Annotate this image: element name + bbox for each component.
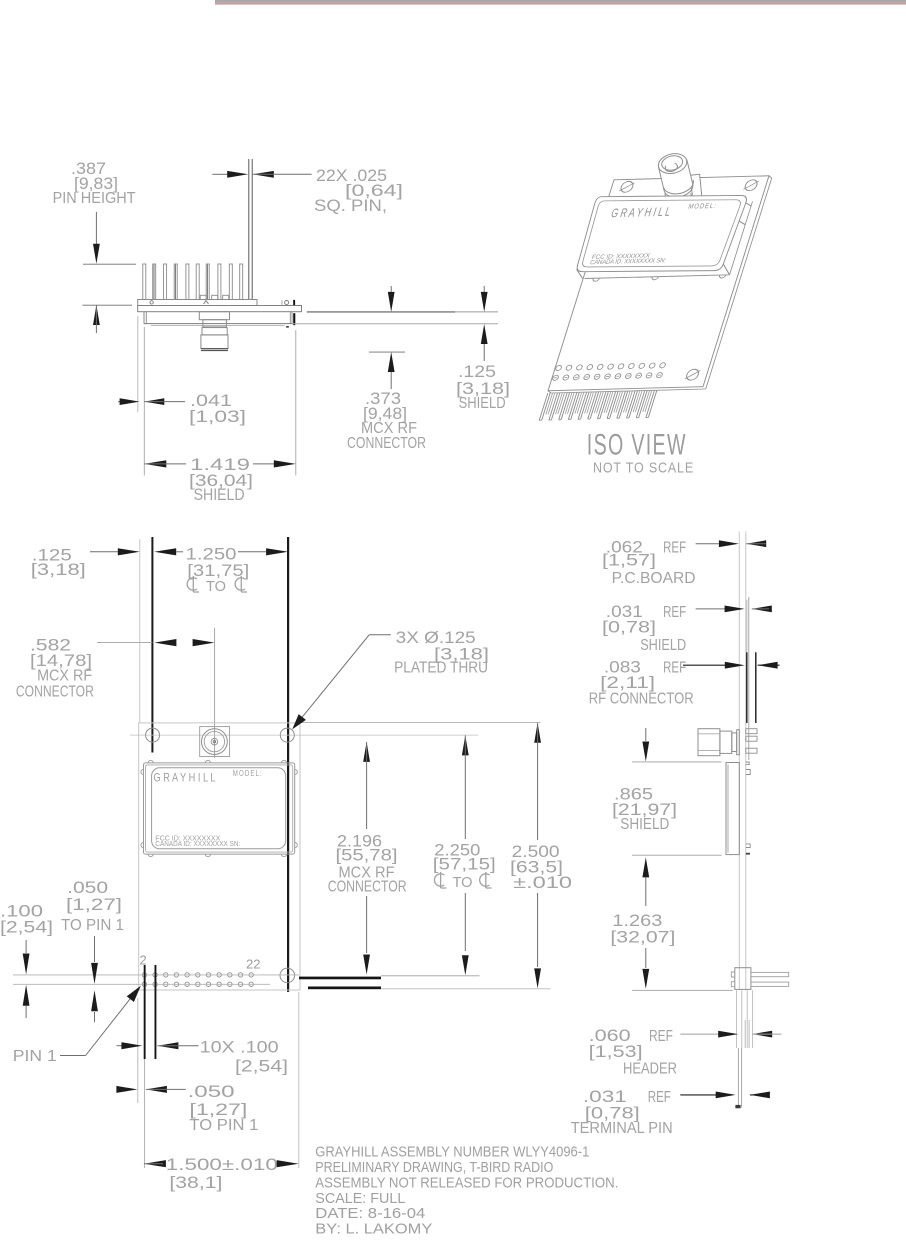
svg-text:PIN HEIGHT: PIN HEIGHT	[53, 190, 136, 207]
svg-text:CONNECTOR: CONNECTOR	[328, 878, 407, 895]
svg-text:BY: L. LAKOMY: BY: L. LAKOMY	[315, 1221, 432, 1238]
svg-text:SHIELD: SHIELD	[459, 395, 506, 412]
svg-text:2: 2	[140, 953, 147, 968]
svg-text:TO PIN 1: TO PIN 1	[61, 917, 124, 934]
svg-text:MODEL:: MODEL:	[687, 201, 718, 210]
svg-text:ASSEMBLY NOT RELEASED FOR PROD: ASSEMBLY NOT RELEASED FOR PRODUCTION.	[315, 1174, 618, 1191]
svg-text:SQ. PIN,: SQ. PIN,	[314, 196, 387, 215]
svg-text:CANADA ID: XXXXXXXX SN:: CANADA ID: XXXXXXXX SN:	[155, 841, 240, 848]
svg-text:[55,78]: [55,78]	[336, 845, 398, 864]
svg-text:[0,78]: [0,78]	[602, 618, 656, 637]
svg-text:DATE: 8-16-04: DATE: 8-16-04	[315, 1205, 425, 1222]
svg-text:NOT TO SCALE: NOT TO SCALE	[593, 459, 694, 476]
svg-text:MODEL:: MODEL:	[233, 768, 263, 778]
svg-text:[38,1]: [38,1]	[169, 1173, 222, 1192]
svg-text:[2,54]: [2,54]	[0, 918, 53, 937]
svg-text:MCX RF: MCX RF	[37, 668, 92, 685]
svg-text:SHIELD: SHIELD	[194, 485, 245, 504]
svg-text:HEADER: HEADER	[623, 1060, 677, 1077]
svg-text:[57,15]: [57,15]	[433, 855, 496, 874]
svg-text:REF: REF	[663, 539, 686, 556]
svg-text:ISO VIEW: ISO VIEW	[587, 428, 687, 461]
svg-text:TO PIN 1: TO PIN 1	[189, 1117, 258, 1134]
svg-text:[1,53]: [1,53]	[589, 1042, 643, 1061]
svg-text:REF: REF	[663, 604, 686, 621]
svg-text:RF CONNECTOR: RF CONNECTOR	[589, 690, 694, 707]
svg-text:G R A Y H I L L: G R A Y H I L L	[609, 204, 672, 220]
svg-text:±.010: ±.010	[513, 873, 572, 892]
svg-text:P.C.BOARD: P.C.BOARD	[612, 570, 696, 587]
svg-text:10X .100: 10X .100	[200, 1038, 279, 1057]
svg-text:TO: TO	[453, 874, 473, 891]
svg-text:CONNECTOR: CONNECTOR	[16, 684, 94, 701]
svg-text:.050: .050	[188, 1082, 235, 1101]
svg-text:PIN 1: PIN 1	[13, 1048, 57, 1065]
svg-text:G R A Y H I L L: G R A Y H I L L	[154, 771, 216, 785]
svg-text:[1,03]: [1,03]	[189, 407, 246, 426]
svg-text:[1,57]: [1,57]	[602, 551, 656, 570]
svg-text:GRAYHILL ASSEMBLY NUMBER WLYY4: GRAYHILL ASSEMBLY NUMBER WLYY4096-1	[315, 1143, 589, 1160]
svg-text:[3,18]: [3,18]	[31, 560, 86, 579]
svg-text:TERMINAL PIN: TERMINAL PIN	[571, 1120, 673, 1137]
svg-text:TO: TO	[206, 578, 226, 595]
svg-text:1.500±.010: 1.500±.010	[166, 1155, 278, 1174]
svg-text:[2,54]: [2,54]	[235, 1057, 288, 1076]
svg-text:[1,27]: [1,27]	[66, 895, 122, 914]
svg-text:REF: REF	[663, 660, 686, 677]
svg-text:22: 22	[246, 957, 260, 972]
svg-text:SHIELD: SHIELD	[640, 637, 686, 654]
svg-text:PRELIMINARY DRAWING, T-BIRD RA: PRELIMINARY DRAWING, T-BIRD RADIO	[315, 1159, 553, 1176]
svg-text:[32,07]: [32,07]	[610, 927, 675, 946]
svg-text:SHIELD: SHIELD	[620, 816, 669, 833]
svg-text:[2,11]: [2,11]	[600, 673, 655, 692]
svg-text:PLATED THRU: PLATED THRU	[394, 660, 488, 677]
svg-text:REF: REF	[649, 1028, 673, 1045]
svg-text:SCALE: FULL: SCALE: FULL	[315, 1190, 405, 1207]
svg-text:CONNECTOR: CONNECTOR	[347, 435, 426, 452]
svg-text:REF: REF	[648, 1089, 671, 1106]
